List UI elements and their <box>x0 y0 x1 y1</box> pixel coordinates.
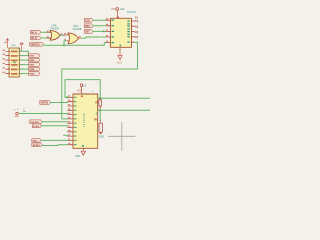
U11 pin names inside <box>112 17 130 47</box>
branch wire up to U6A input 2 <box>64 41 66 45</box>
wire A from U11 right pin down and around to U2 pin3 <box>62 42 138 119</box>
gate U6A ref and value text <box>72 24 82 31</box>
resistor R4 <box>94 113 102 134</box>
wire labelA to gate U5A input 1 <box>41 31 51 33</box>
wire label CLK to U11 pin1 <box>93 19 106 21</box>
U11 right pin labels <box>135 16 138 39</box>
power flag PULSE row <box>14 108 26 117</box>
junction on pin3 wire <box>103 30 105 32</box>
junction dot at U2 pin1 <box>66 96 68 98</box>
global label RST to U11 pin2 <box>85 24 93 28</box>
stacked global label S2 <box>29 58 40 62</box>
wire SW1 pin3 to label S2 <box>20 59 29 61</box>
wire label RST to U11 pin2 <box>93 25 106 27</box>
IC U11 reference and value text <box>120 7 136 14</box>
stacked global label S4 <box>29 67 40 71</box>
global label PULSE1 to U2 <box>30 120 42 124</box>
stacked global label S1 <box>29 54 40 58</box>
wire label DATA0 to U2 pin2 <box>51 102 68 104</box>
global label RESET to U2 <box>32 143 42 147</box>
gate U5A input label A <box>31 30 41 34</box>
wire label RESET jog to U2 pin12 <box>42 144 67 147</box>
junction at branch <box>63 44 65 46</box>
stacked global label S3 <box>29 63 40 67</box>
gate U5A input label B <box>31 36 41 40</box>
global label CLK2 to U2 <box>33 124 42 128</box>
wire SW1 pin1 jog to first stacked label <box>20 51 29 55</box>
gate U5A ref and value text <box>50 23 60 30</box>
dip switch SW1 body <box>9 48 20 77</box>
U2 left pin numbers <box>68 95 70 143</box>
or-gate U6A <box>64 33 82 44</box>
resistor R2 <box>95 98 101 110</box>
wire junction down to R4 <box>99 110 101 120</box>
U11 right pins <box>132 21 135 42</box>
global label SWITCH <box>30 43 44 47</box>
wire U6A output to U11 pin4 <box>81 37 106 38</box>
U11 left pin 4 <box>106 35 111 37</box>
wire labelB to gate U5A input 2 <box>41 37 51 39</box>
wire B loop over U2 <box>65 80 100 99</box>
wire label PULSE1 to U2 pin7 <box>42 121 67 123</box>
long wire U2 right row2 <box>98 109 150 111</box>
power VCC symbol above switch SW1 <box>4 39 8 48</box>
short wire stub at U2 pin10 <box>64 134 68 136</box>
U11 left pin 2 <box>106 24 111 26</box>
SW1 right pins <box>20 51 24 73</box>
wire SW1 pin6 to label S5 <box>20 73 29 75</box>
wire SW1 pin5 to label S4 <box>20 68 29 70</box>
global label CLK to U11 pin1 <box>85 18 93 22</box>
wire label CLK2 to U2 pin8 <box>41 125 67 127</box>
U2 left pins <box>68 97 74 144</box>
or-gate U5A <box>47 30 64 40</box>
junction at resistor R2 top <box>99 97 101 99</box>
wire SWITCH label across to U11 pin5 <box>44 43 106 46</box>
power VCC symbol above U11 <box>111 8 119 19</box>
wire SW1 pin4 to label S3 <box>20 64 29 66</box>
power VCC symbol above U2 <box>77 84 94 94</box>
U11 left pin 5 <box>106 41 111 43</box>
ground symbol below U2 <box>75 148 85 158</box>
wire U5A output to U6A input <box>60 34 65 36</box>
U2 left pin names <box>74 97 77 145</box>
power flag above switch pin wire <box>18 43 23 52</box>
long wire row to U2 pin4 <box>20 113 68 115</box>
long wire U2 right row1 <box>98 97 150 99</box>
stacked global label S5 <box>29 72 40 76</box>
wire label SET to U11 pin3 <box>93 30 106 32</box>
global label EN1 to U2 <box>32 139 41 143</box>
IC U2 body <box>73 94 98 148</box>
global label SET to U11 pin3 <box>85 30 93 34</box>
ground symbol below U11 <box>117 47 123 64</box>
wire SW1 pin2 to label S1 <box>20 55 29 57</box>
U11 left pin 3 <box>106 29 111 31</box>
U2 inner top pin number and bottom pin name marks <box>81 95 83 97</box>
junction at resistor R2 bottom <box>99 109 101 111</box>
SW1 left pin numbers <box>3 50 5 74</box>
wire label EN1 to U2 pin11 <box>41 139 67 141</box>
global label DATA0 to U2 <box>40 101 51 105</box>
cursor crosshair <box>108 122 135 150</box>
U11 left pin 1 <box>106 18 111 20</box>
IC U11 body <box>110 18 131 47</box>
SW1 left pins <box>6 51 10 73</box>
U2 right pins <box>98 98 101 110</box>
